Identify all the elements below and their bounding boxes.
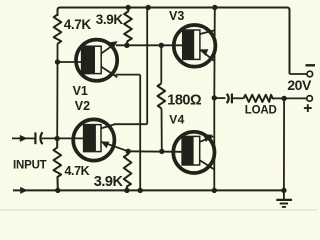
node dot bottom rail 4.7K (55, 188, 60, 193)
resistor R2 3.9K upper (124, 8, 132, 46)
wire +line down to bottom rail (283, 98, 285, 190)
resistor LOAD (244, 95, 275, 102)
node dot output (212, 95, 217, 100)
wire 180ohm upper lead (160, 45, 162, 83)
node dot 180ohm top (159, 43, 164, 48)
node dot bottom rail ground (281, 188, 286, 193)
wire V1 base (58, 61, 83, 63)
svg-text:V1: V1 (73, 84, 88, 98)
wire output line to cap (214, 97, 225, 99)
node dot V2 emitter (126, 149, 131, 154)
wire LOAD to +terminal (275, 97, 307, 99)
wire V1 collector (116, 74, 141, 76)
wire input line (12, 137, 84, 139)
svg-text:20V: 20V (287, 77, 312, 93)
transistor V3 (174, 25, 216, 67)
wire node line V1 emitter to V3 base (116, 44, 183, 46)
wire cap to LOAD (232, 97, 244, 99)
wire bottom rail (13, 189, 284, 191)
node dot rail x right spine (212, 5, 217, 10)
svg-text:INPUT: INPUT (13, 160, 47, 172)
node dot bottom rail line A (138, 188, 143, 193)
node dot 180ohm bottom (159, 149, 164, 154)
capacitor C2 output plate curved (227, 94, 229, 103)
transistor V2 (73, 119, 128, 160)
node dot V1 base (55, 59, 60, 64)
node dot load right (281, 96, 286, 101)
wire 180ohm lower lead (161, 109, 163, 152)
resistor R4 4.7K lower (54, 139, 62, 191)
node dot bottom rail 3.9K (124, 188, 129, 193)
node dot rail x 3.9K (126, 5, 131, 10)
terminal plus (304, 96, 313, 112)
svg-text:4.7K: 4.7K (64, 17, 92, 32)
wire V2 emitter to V4 base (128, 150, 182, 153)
resistor R1 4.7K upper (54, 15, 62, 44)
capacitor C2 output plate straight (231, 94, 233, 104)
svg-text:180Ω: 180Ω (167, 93, 202, 109)
svg-text:LOAD: LOAD (245, 104, 277, 116)
ground (276, 190, 292, 207)
wire left spine upper (56, 44, 58, 139)
input arrow (20, 135, 28, 142)
capacitor C1 input plate straight (34, 132, 36, 144)
node dot 3.9K bottom (124, 43, 129, 48)
node dot input (55, 136, 60, 141)
svg-text:V4: V4 (169, 113, 184, 127)
wire line A down to bottom rail (139, 75, 141, 191)
capacitor C1 input plate curved (40, 132, 42, 144)
bottom edge scan line (0, 209, 317, 210)
wire -20V terminal lead (290, 73, 307, 75)
wire top rail (58, 8, 290, 75)
wire V2 collector (114, 123, 147, 125)
node dot bottom rail right spine (212, 188, 217, 193)
resistor R5 3.9K lower (124, 151, 132, 190)
resistor R3 180ohm (158, 84, 166, 109)
svg-text:3.9K: 3.9K (96, 12, 124, 27)
wire right spine (213, 8, 216, 191)
transistor V4 (173, 132, 214, 173)
wire line B from top rail (146, 8, 148, 125)
svg-text:V2: V2 (75, 99, 90, 113)
terminal minus 20V (306, 65, 316, 76)
node dot rail x line B (146, 5, 151, 10)
svg-text:3.9K: 3.9K (94, 174, 124, 190)
bottom rail arrow (20, 187, 28, 194)
svg-text:V3: V3 (169, 9, 184, 23)
transistor V1 (76, 40, 118, 81)
svg-text:4.7K: 4.7K (65, 164, 90, 178)
